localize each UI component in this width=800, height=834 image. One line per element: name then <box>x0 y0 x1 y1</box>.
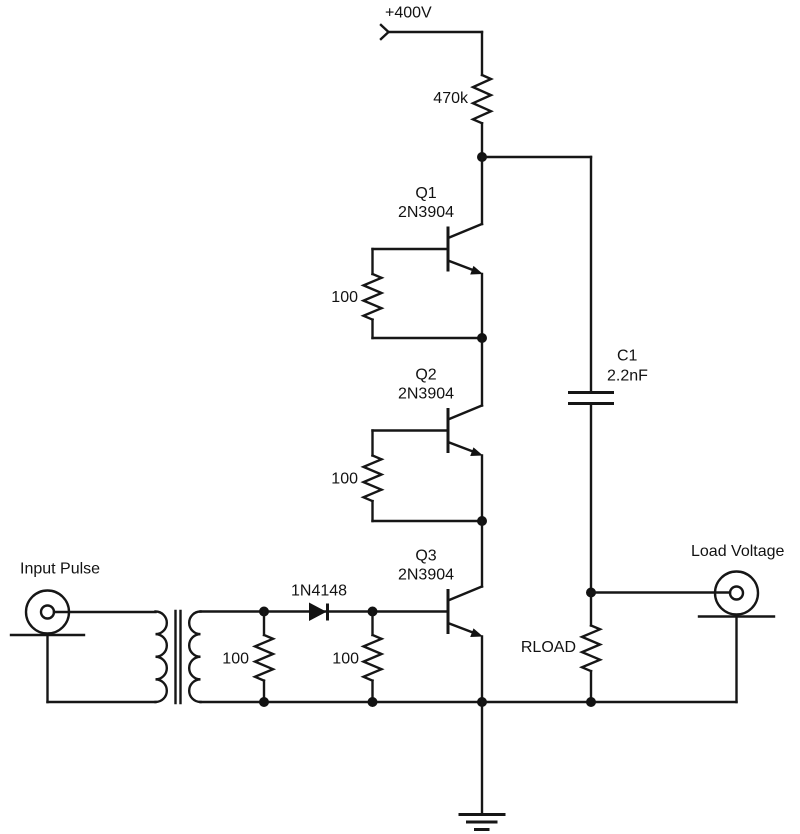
node J junction dot (RLOAD bottom) <box>586 697 596 707</box>
wire bottom rail right <box>482 701 737 703</box>
BNC input ground bar <box>11 634 84 636</box>
node C junction dot <box>477 516 487 526</box>
wire BNC input ground to transformer primary bottom <box>48 701 156 703</box>
svg-text:100: 100 <box>332 651 359 668</box>
transistor Q3 <box>448 587 483 638</box>
wire node A to C1 branch <box>482 156 591 158</box>
supply chevron terminal <box>381 25 389 39</box>
node H junction dot (bottom of Q3 base R100) <box>368 697 378 707</box>
wire R470k to node A <box>481 123 483 157</box>
wire C1 branch vertical <box>590 157 592 391</box>
wire C1 bottom to node D <box>590 405 592 593</box>
svg-text:100: 100 <box>222 651 249 668</box>
svg-text:Input Pulse: Input Pulse <box>20 561 100 578</box>
wire ground stem <box>481 702 483 814</box>
transformer T1 secondary winding <box>189 612 200 703</box>
node I junction dot (Q3 emitter / bottom rail) <box>477 697 487 707</box>
node D junction dot (C1 / RLOAD / load wire) <box>586 588 596 598</box>
BNC load ground bar <box>699 615 774 617</box>
svg-text:2N3904: 2N3904 <box>398 567 454 584</box>
svg-text:Q3: Q3 <box>415 548 436 565</box>
wire Q3 emitter <box>481 637 483 703</box>
svg-text:2N3904: 2N3904 <box>398 204 454 221</box>
node A junction dot <box>477 152 487 162</box>
wire Q1 collector <box>481 157 483 224</box>
node F junction dot (secondary bottom / R100) <box>259 697 269 707</box>
svg-text:1N4148: 1N4148 <box>291 583 347 600</box>
wire R2 top vertical <box>371 431 373 456</box>
wire R1 bottom vertical <box>371 320 373 338</box>
svg-text:2.2nF: 2.2nF <box>607 368 648 385</box>
wire Q2 collector <box>481 338 483 406</box>
ground symbol <box>459 815 506 830</box>
svg-text:+400V: +400V <box>385 5 432 22</box>
wire RLOAD top <box>590 593 592 626</box>
wire R1 bottom horizontal to node B <box>373 337 483 339</box>
resistor 100 (secondary damping) <box>255 612 273 703</box>
wire RLOAD bottom <box>590 671 592 702</box>
wire secondary top to Q3 base <box>201 610 448 612</box>
wire node D to load BNC <box>591 591 730 593</box>
wire Q1 base <box>373 248 448 250</box>
svg-text:Q2: Q2 <box>415 367 436 384</box>
transformer T1 core <box>176 611 181 703</box>
node G junction dot (diode cathode / R100 / Q3 base) <box>368 607 378 617</box>
wire Q3 collector <box>481 521 483 587</box>
resistor 100 (Q3 base) <box>364 612 382 703</box>
svg-text:100: 100 <box>331 289 358 306</box>
transformer T1 primary winding <box>156 612 167 703</box>
wire secondary bottom <box>201 701 483 703</box>
wire BNC input center to transformer primary <box>54 611 156 613</box>
svg-text:100: 100 <box>331 471 358 488</box>
wire R2 bottom vertical <box>371 501 373 521</box>
wire Q2 base <box>373 429 448 431</box>
wire Q2 emitter <box>481 456 483 522</box>
svg-text:RLOAD: RLOAD <box>521 639 576 656</box>
wire BNC input ground down <box>46 635 48 702</box>
svg-text:Load Voltage: Load Voltage <box>691 543 785 560</box>
BNC connector input: center pin <box>41 606 54 619</box>
BNC connector input: outer ring <box>26 591 69 634</box>
resistor 100 (Q2 base-emitter) <box>364 456 382 502</box>
svg-text:470k: 470k <box>433 90 469 107</box>
BNC connector load: center pin <box>730 587 743 600</box>
resistor RLOAD <box>582 626 600 672</box>
capacitor C1 <box>568 393 614 404</box>
transistor Q1 <box>448 224 483 275</box>
svg-text:2N3904: 2N3904 <box>398 386 454 403</box>
wire Q1 emitter <box>481 274 483 338</box>
diode D1 <box>309 603 328 622</box>
node B junction dot <box>477 333 487 343</box>
wire R1 top vertical <box>371 249 373 274</box>
transistor Q2 <box>448 406 483 457</box>
svg-text:C1: C1 <box>617 348 638 365</box>
wire top horizontal <box>389 31 483 33</box>
node E junction dot (secondary top / R100) <box>259 607 269 617</box>
wire BNC load ground down <box>735 617 737 703</box>
BNC connector load: outer ring <box>715 572 758 615</box>
svg-text:Q1: Q1 <box>415 185 436 202</box>
resistor 100 (Q1 base-emitter) <box>364 274 382 320</box>
wire top vertical into R 470k <box>481 32 483 75</box>
resistor 470k <box>473 75 491 123</box>
wire R2 bottom horizontal to node C <box>373 520 483 522</box>
